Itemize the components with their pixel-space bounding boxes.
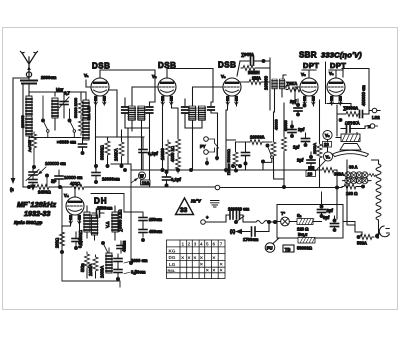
resistor 340 ohm bbox=[320, 168, 344, 220]
oscillator coil bars 3 bbox=[112, 206, 118, 240]
output transformer winding row 1 bbox=[345, 172, 376, 178]
svg-text:Mgr: Mgr bbox=[56, 87, 64, 92]
svg-text:480cm: 480cm bbox=[149, 229, 162, 234]
svg-text:1: 1 bbox=[182, 242, 185, 247]
trimmer 40cm bbox=[117, 240, 127, 253]
potentiometer 50000 bbox=[233, 142, 238, 173]
svg-text:1932-33: 1932-33 bbox=[24, 209, 50, 218]
resistor 6K node bbox=[45, 174, 57, 188]
wire V6 pins bbox=[327, 101, 351, 107]
terminal bus bbox=[215, 185, 220, 190]
wire V5 plate up bbox=[302, 70, 316, 77]
junction dots mains bbox=[267, 220, 277, 224]
svg-text:1000Λ: 1000Λ bbox=[88, 264, 93, 276]
jack symbol bbox=[379, 226, 389, 237]
svg-text:∑5000Λ: ∑5000Λ bbox=[343, 106, 358, 111]
svg-text:×: × bbox=[212, 268, 215, 274]
tube V6 bbox=[327, 71, 345, 105]
capacitor 1500cm bbox=[92, 206, 113, 218]
switch osc bbox=[101, 241, 111, 257]
svg-text:∑0ΦΙΔ: ∑0ΦΙΔ bbox=[241, 52, 254, 57]
svg-text:40Ωm: 40Ωm bbox=[122, 240, 127, 252]
valve table bbox=[167, 240, 226, 279]
svg-text:V₁: V₁ bbox=[84, 73, 89, 78]
left caps column 2uF c bbox=[297, 152, 315, 170]
wire T1 secondary to V2 grid bbox=[132, 87, 158, 106]
svg-text:≡0000 cm: ≡0000 cm bbox=[57, 140, 76, 145]
svg-text:0,1μf: 0,1μf bbox=[171, 177, 181, 182]
svg-text:SBR: SBR bbox=[299, 51, 317, 60]
svg-text:13: 13 bbox=[324, 142, 329, 147]
wire vert x355 right of box bbox=[343, 222, 355, 226]
svg-text:5: 5 bbox=[206, 242, 209, 247]
svg-text:DG: DG bbox=[169, 255, 176, 260]
svg-text:V₄: V₄ bbox=[64, 193, 69, 198]
svg-text:4: 4 bbox=[200, 242, 203, 247]
wire centre tap V5 V6 bbox=[325, 62, 327, 104]
svg-text:ΛεΛΧΕ: ΛεΛΧΕ bbox=[28, 140, 32, 152]
capacitor C4 0,1uF bbox=[139, 137, 147, 170]
padding resistor R1 bbox=[79, 99, 84, 135]
svg-text:ΡΥ: ΡΥ bbox=[200, 144, 206, 149]
svg-text:100KΛ: 100KΛ bbox=[114, 148, 119, 161]
filter cap B 2uF bbox=[323, 215, 339, 232]
heater bar 1 bbox=[297, 219, 322, 225]
indicator circle Vb bbox=[323, 152, 332, 161]
svg-text:333C(ηοʹV): 333C(ηοʹV) bbox=[321, 51, 362, 60]
svg-text:6: 6 bbox=[213, 242, 216, 247]
label SBR 333C (muV) bbox=[299, 51, 362, 60]
svg-text:(1): (1) bbox=[230, 229, 236, 234]
wire vert x322 bbox=[321, 192, 323, 202]
svg-text:1700cm: 1700cm bbox=[243, 237, 259, 242]
svg-text:10000Λ: 10000Λ bbox=[250, 135, 265, 140]
wire V4 cathode down bbox=[62, 220, 80, 232]
junction dots bus y172 bbox=[123, 164, 286, 189]
grid coil L3 bbox=[83, 100, 89, 140]
svg-text:V₅: V₅ bbox=[325, 133, 330, 138]
svg-text:50000Ω: 50000Ω bbox=[297, 246, 313, 251]
wire plate bus V3 bbox=[266, 58, 270, 61]
capacitor 1700cm bbox=[243, 222, 269, 242]
svg-text:9μf: 9μf bbox=[323, 215, 330, 220]
svg-text:LS2: LS2 bbox=[372, 115, 380, 120]
box 13a bbox=[323, 142, 332, 148]
lamp circle X bbox=[277, 217, 297, 226]
svg-text:100000 cm: 100000 cm bbox=[45, 161, 66, 166]
coil bars 4 bbox=[106, 248, 112, 273]
svg-text:2μf: 2μf bbox=[290, 99, 297, 104]
wire V1 grid bbox=[86, 80, 91, 87]
svg-text:2000cm: 2000cm bbox=[41, 75, 57, 80]
svg-text:1μf: 1μf bbox=[293, 145, 300, 150]
wire padder bbox=[124, 212, 143, 214]
wire T2 secondary to V3 grid bbox=[193, 87, 223, 106]
tuning coil L2 bbox=[52, 92, 58, 130]
svg-text:Sₙ: Sₙ bbox=[297, 213, 302, 218]
indicator circle Va bbox=[323, 130, 332, 139]
resistor col 50000 bbox=[282, 120, 289, 179]
meter W bbox=[131, 172, 146, 183]
svg-text:1000Λ: 1000Λ bbox=[313, 143, 317, 154]
svg-text:340Λ: 340Λ bbox=[334, 172, 344, 177]
svg-text:400000 cm: 400000 cm bbox=[361, 85, 366, 106]
junction dot osc bbox=[129, 261, 133, 265]
variable cap stack bottom left bbox=[26, 168, 39, 190]
svg-text:±50cm: ±50cm bbox=[149, 217, 162, 222]
svg-text:T°: T° bbox=[281, 211, 286, 216]
svg-text:×: × bbox=[220, 268, 223, 274]
svg-text:2: 2 bbox=[188, 242, 191, 247]
wire T2 bottoms bbox=[185, 113, 218, 170]
box 12A bbox=[141, 180, 151, 185]
DH box outline bbox=[62, 188, 124, 287]
svg-text:40000: 40000 bbox=[275, 119, 279, 130]
IF transformer T1 primary bbox=[129, 106, 136, 120]
resistor R3 bbox=[119, 130, 124, 168]
switch S1b bbox=[68, 109, 76, 138]
trimmer cap T1 left bbox=[122, 98, 128, 121]
svg-text:1000Λ: 1000Λ bbox=[100, 266, 105, 278]
svg-text:DPT: DPT bbox=[303, 61, 319, 70]
oscillator coil bars 1 bbox=[84, 206, 90, 238]
svg-text:10000: 10000 bbox=[160, 148, 165, 160]
svg-text:∑0000 2.2Ω: ∑0000 2.2Ω bbox=[118, 210, 123, 232]
wire left rail bbox=[12, 78, 14, 181]
svg-text:2μf: 2μf bbox=[327, 208, 334, 213]
resistor col 40000 bbox=[271, 140, 276, 170]
capacitor 20000cm bbox=[79, 138, 87, 156]
svg-text:MFʾ128kHz: MFʾ128kHz bbox=[17, 200, 57, 209]
wire antenna to rails bbox=[13, 77, 29, 79]
arrow terminal left rail bbox=[10, 178, 15, 192]
resistor R5 bbox=[176, 135, 181, 173]
bus wire y187 right bbox=[220, 187, 342, 189]
choke coil right bbox=[372, 160, 382, 238]
svg-text:3: 3 bbox=[194, 242, 197, 247]
wire speaker connections bbox=[328, 132, 358, 152]
svg-text:10000Ω: 10000Ω bbox=[78, 230, 83, 245]
mains filter caps bbox=[206, 211, 244, 222]
svg-text:560Λ: 560Λ bbox=[357, 241, 367, 246]
svg-text:2MΛ: 2MΛ bbox=[252, 76, 261, 81]
svg-text:V₃: V₃ bbox=[221, 74, 226, 79]
wire V1 pins down bbox=[96, 90, 118, 168]
wire screen bus bbox=[96, 137, 145, 140]
svg-text:ΒΕΞΗ: ΒΕΞΗ bbox=[248, 70, 260, 75]
resistor 100 ohm bbox=[342, 184, 365, 196]
resistor tuner left bbox=[32, 132, 37, 170]
capacitor pot bbox=[242, 142, 250, 170]
svg-text:×: × bbox=[206, 268, 209, 274]
svg-text:V₆: V₆ bbox=[326, 155, 331, 160]
capacitor antenna coupling 2000cm bbox=[21, 77, 37, 96]
capacitor 10000cm 400ohm bbox=[55, 170, 83, 187]
svg-text:V₅: V₅ bbox=[301, 72, 306, 77]
box TB bbox=[283, 245, 294, 252]
trimmer cap T1 right bbox=[146, 102, 152, 121]
svg-text:ΗεʺV: ΗεʺV bbox=[191, 199, 202, 204]
resistor 25000 output bbox=[337, 105, 369, 136]
resistor R4 bbox=[166, 140, 171, 170]
arrow voltage selector bbox=[237, 230, 251, 234]
trimmer cap T2 right bbox=[208, 102, 214, 113]
svg-text:2400Ω: 2400Ω bbox=[38, 190, 51, 195]
wire T3 to V5 grid resistor bbox=[283, 75, 286, 88]
svg-text:30 Λ: 30 Λ bbox=[349, 165, 358, 170]
svg-text:2μf: 2μf bbox=[298, 127, 305, 132]
svg-text:RβL: RβL bbox=[168, 268, 176, 273]
svg-text:4000 1Ω: 4000 1Ω bbox=[170, 146, 175, 162]
svg-text:10000cm: 10000cm bbox=[102, 177, 120, 182]
svg-text:0,7: 0,7 bbox=[64, 91, 70, 96]
wire V3 pins bbox=[226, 101, 237, 172]
svg-text:V₆: V₆ bbox=[329, 71, 334, 76]
wire osc verticals bbox=[124, 170, 131, 263]
heater bar 2 bbox=[298, 238, 315, 244]
svg-text:120 Ω: 120 Ω bbox=[297, 227, 309, 232]
svg-text:Ποτεντ 50000Ω: Ποτεντ 50000Ω bbox=[227, 149, 231, 175]
tube V2 bbox=[152, 74, 176, 105]
bus wire y187 left with resistor 2400 bbox=[23, 185, 96, 195]
IF transformer T2 primary bbox=[189, 106, 196, 120]
switch mains bbox=[234, 216, 256, 224]
svg-text:13: 13 bbox=[308, 172, 313, 177]
terminal LS2 bbox=[369, 108, 380, 120]
svg-text:LG: LG bbox=[169, 262, 176, 267]
ground capacitor C5 bbox=[92, 164, 100, 184]
box 13b bbox=[306, 171, 316, 177]
switch S1a bbox=[41, 96, 49, 138]
svg-text:0,1μf: 0,1μf bbox=[148, 151, 158, 156]
svg-text:30000 2000: 30000 2000 bbox=[74, 98, 78, 118]
filter cap A 2uF bbox=[318, 202, 334, 218]
resistor 1000 bbox=[93, 255, 98, 278]
resistor 5Km bbox=[85, 252, 90, 278]
left caps column 2uF a bbox=[290, 99, 302, 117]
svg-text:1000 cm: 1000 cm bbox=[131, 258, 148, 263]
bus wire y187 mid bbox=[96, 186, 216, 188]
left caps column 1uF b2 bbox=[293, 133, 310, 150]
terminal XO bbox=[368, 124, 378, 129]
capacitor V4 bypass bbox=[72, 232, 80, 250]
trimmer cap T2 left bbox=[182, 99, 188, 120]
label 100000 cm with arrow bbox=[38, 161, 66, 175]
variable capacitor C1 bbox=[59, 92, 69, 118]
svg-text:30000Ω: 30000Ω bbox=[100, 145, 105, 160]
resistor 560 ohm bbox=[347, 160, 380, 246]
svg-text:400Ω: 400Ω bbox=[70, 181, 80, 186]
switch wave change bbox=[261, 144, 273, 171]
svg-text:10000 cm: 10000 cm bbox=[64, 175, 83, 180]
svg-text:33: 33 bbox=[180, 207, 188, 214]
resistor 290 vertical bbox=[60, 226, 65, 254]
output transformer winding row 2 bbox=[342, 175, 371, 184]
svg-text:290Ω: 290Ω bbox=[55, 238, 60, 248]
PU input terminals bbox=[200, 137, 219, 165]
svg-text:DSB: DSB bbox=[218, 61, 236, 70]
svg-text:Δελ 4.Ω: Δελ 4.Ω bbox=[87, 107, 91, 120]
IF transformer T3 primary bbox=[272, 79, 277, 89]
resistor 10000 horizontal bbox=[236, 135, 273, 145]
svg-text:5Κm: 5Κm bbox=[80, 263, 85, 272]
speaker cone bbox=[333, 144, 369, 157]
capacitor 380cm bbox=[114, 265, 146, 281]
svg-text:100 Ω: 100 Ω bbox=[346, 191, 358, 196]
tube V5 bbox=[300, 72, 318, 105]
svg-text:W: W bbox=[140, 174, 144, 179]
svg-text:Εμιλε 500Ω,γρ: Εμιλε 500Ω,γρ bbox=[14, 220, 43, 225]
speaker field coil bbox=[341, 134, 360, 142]
wire V2 plate to IF2 bbox=[167, 69, 213, 103]
resistor R2 screen bbox=[105, 137, 110, 168]
IF transformer T3 secondary bbox=[280, 79, 285, 89]
antenna bbox=[21, 52, 38, 78]
fuse wavy bbox=[256, 221, 268, 224]
bus wire y172 bbox=[111, 164, 320, 187]
oscillator coil bars 2 bbox=[92, 215, 98, 240]
capacitor C7 top 20000 bbox=[237, 57, 266, 76]
wire plate to output transformer box bbox=[342, 69, 369, 115]
svg-text:KG: KG bbox=[169, 248, 176, 253]
svg-text:Βαₚτ: Βαₚτ bbox=[298, 232, 307, 237]
tube V4 bbox=[64, 187, 84, 224]
circle PU bbox=[265, 238, 279, 252]
left caps column 2uF b bbox=[288, 121, 305, 138]
wire pot net bbox=[226, 110, 236, 170]
wire tuner mid bbox=[30, 136, 82, 138]
wire V1 plate to IF1 bbox=[100, 70, 155, 102]
IF transformer T2 secondary bbox=[199, 106, 206, 120]
svg-text:V.Δ: V.Δ bbox=[105, 221, 110, 228]
wire V6 plate up bbox=[329, 70, 343, 77]
tube V3 bbox=[221, 74, 241, 105]
padder cap 480cm bbox=[139, 225, 162, 242]
junction dot V5 cathode bbox=[303, 104, 307, 108]
svg-text:ΤΒ: ΤΒ bbox=[285, 247, 291, 252]
tube V1 bbox=[84, 73, 109, 105]
antenna coil L1 bbox=[26, 96, 32, 142]
svg-text:12Δ: 12Δ bbox=[142, 180, 150, 185]
svg-text:PU: PU bbox=[267, 246, 273, 251]
capacitor output 2uF bbox=[341, 121, 370, 133]
svg-text:100000: 100000 bbox=[21, 115, 25, 128]
resistor R8 grid V5 bbox=[286, 87, 302, 92]
resistor right column 1000 bbox=[313, 100, 322, 188]
wire V5 pins bbox=[295, 87, 314, 106]
ground symbol bbox=[211, 201, 220, 208]
svg-text:7: 7 bbox=[220, 242, 223, 247]
svg-text:∑0ΚΛ: ∑0ΚΛ bbox=[286, 81, 297, 86]
capacitor C6 0,1uF bbox=[163, 170, 171, 188]
wire T3 bottom bbox=[270, 61, 284, 140]
svg-text:2μf: 2μf bbox=[297, 158, 304, 163]
triangle MEV bbox=[176, 198, 194, 215]
resistor R7 2MA bbox=[240, 80, 270, 85]
power box bbox=[277, 205, 343, 239]
IF transformer T1 secondary bbox=[138, 106, 145, 120]
svg-text:DH: DH bbox=[94, 197, 108, 206]
svg-text:100000: 100000 bbox=[264, 75, 269, 90]
input terminal plus bbox=[201, 215, 209, 224]
resistor R6 50000 bbox=[241, 66, 270, 71]
wire top tuner bbox=[29, 92, 86, 100]
svg-text:DSB: DSB bbox=[92, 62, 110, 71]
diagonal wire to lamp bbox=[312, 161, 325, 175]
wire V2 pins down bbox=[163, 101, 179, 170]
capacitor 1000cm bbox=[114, 254, 148, 266]
padder cap 150cm bbox=[139, 213, 162, 225]
wire second rail bbox=[22, 84, 24, 187]
wire T1 bottoms bbox=[125, 102, 155, 187]
svg-text:V₂: V₂ bbox=[152, 74, 157, 79]
svg-text:3,β0cm: 3,β0cm bbox=[131, 270, 146, 275]
